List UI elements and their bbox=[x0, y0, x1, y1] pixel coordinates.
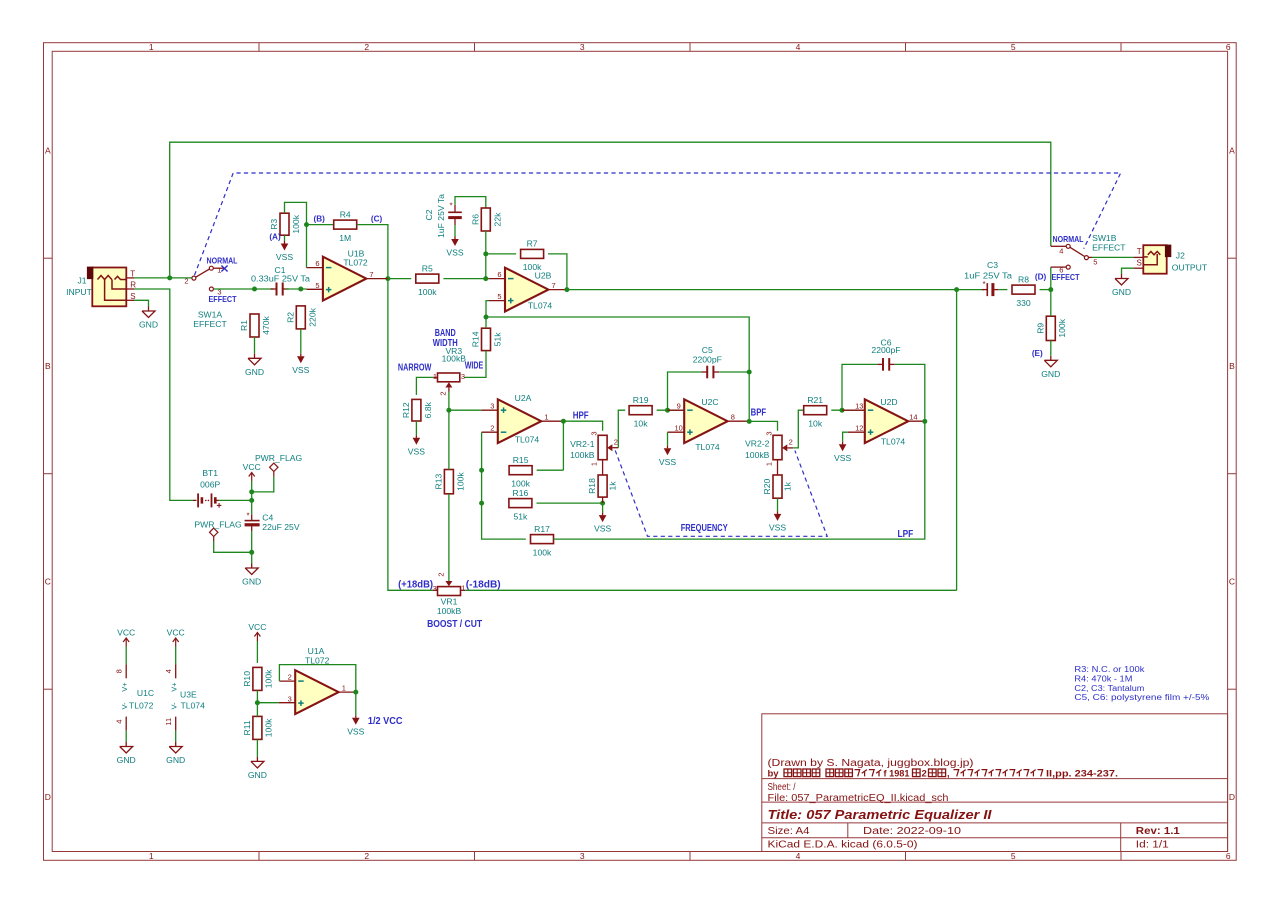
svg-text:22uF 25V: 22uF 25V bbox=[262, 522, 300, 532]
svg-text:11: 11 bbox=[164, 718, 173, 726]
svg-text:R21: R21 bbox=[807, 395, 823, 405]
potentiometer VR2-2 100kB bbox=[773, 435, 782, 459]
svg-text:f 1981: f 1981 bbox=[884, 768, 911, 779]
svg-text:1uF 25V Ta: 1uF 25V Ta bbox=[964, 271, 1012, 281]
svg-text:3: 3 bbox=[288, 695, 292, 704]
svg-text:T: T bbox=[130, 269, 135, 278]
VSS at U2C bbox=[667, 446, 669, 449]
svg-text:(C): (C) bbox=[371, 214, 383, 223]
ground at C4 bbox=[251, 564, 253, 569]
svg-text:T: T bbox=[1137, 247, 1142, 256]
svg-text:R2: R2 bbox=[285, 312, 295, 323]
svg-text:R4: 470k - 1M: R4: 470k - 1M bbox=[1074, 674, 1132, 683]
svg-text:6: 6 bbox=[1226, 851, 1231, 861]
svg-text:4: 4 bbox=[796, 851, 801, 861]
VCC at U3E bbox=[175, 639, 177, 647]
junction output bus bbox=[954, 287, 959, 292]
wire U2B pin5 to bandwidth net bbox=[486, 301, 489, 317]
svg-text:2: 2 bbox=[490, 424, 494, 433]
svg-text:C4: C4 bbox=[262, 512, 273, 522]
wire top loop input to SW1B bbox=[170, 142, 1051, 278]
wire J1 ring to battery bbox=[134, 289, 193, 500]
wire node to R7 bbox=[486, 253, 516, 255]
junction GND node bbox=[249, 550, 254, 555]
svg-text:R20: R20 bbox=[762, 478, 772, 494]
svg-text:470k: 470k bbox=[261, 315, 271, 334]
junction R2 top bbox=[298, 287, 303, 292]
svg-text:2: 2 bbox=[364, 851, 369, 861]
resistor R2 bbox=[296, 306, 305, 329]
svg-text:D: D bbox=[45, 792, 51, 802]
pin U2C-8 output bbox=[728, 420, 750, 422]
svg-text:TL074: TL074 bbox=[528, 301, 553, 311]
svg-text:File: 057_ParametricEQ_II.kica: File: 057_ParametricEQ_II.kicad_sch bbox=[768, 793, 949, 804]
svg-text:(D): (D) bbox=[1035, 272, 1047, 281]
VSS at R12 bbox=[415, 435, 417, 438]
svg-text:A: A bbox=[45, 146, 51, 156]
svg-text:VSS: VSS bbox=[276, 252, 293, 262]
capacitor C2 1uF 25V Ta bbox=[448, 211, 462, 213]
wire VCC column bbox=[251, 481, 253, 500]
ground at U1C bbox=[125, 742, 127, 747]
dashed FREQUENCY group bbox=[615, 450, 827, 536]
junction R6 bottom node bbox=[483, 276, 488, 281]
svg-text:1k: 1k bbox=[783, 481, 793, 491]
svg-text:5: 5 bbox=[1011, 42, 1016, 52]
PWR_FLAG at GND bbox=[213, 537, 215, 542]
resistor R15 bbox=[509, 466, 532, 475]
svg-text:1: 1 bbox=[217, 265, 221, 274]
svg-text:4: 4 bbox=[115, 720, 124, 724]
junction R1 top bbox=[252, 287, 257, 292]
pin U2A-1 output bbox=[541, 420, 563, 422]
svg-text:3: 3 bbox=[580, 42, 585, 52]
svg-text:220k: 220k bbox=[307, 307, 317, 326]
svg-text:1: 1 bbox=[149, 42, 154, 52]
svg-text:R13: R13 bbox=[433, 473, 443, 489]
svg-text:WIDE: WIDE bbox=[465, 359, 484, 371]
svg-text:Rev: 1.1: Rev: 1.1 bbox=[1136, 826, 1180, 837]
svg-text:1M: 1M bbox=[339, 233, 351, 243]
wire junction to U1A pin3 bbox=[257, 702, 278, 704]
svg-text:100k: 100k bbox=[291, 214, 301, 233]
svg-text:(-18dB): (-18dB) bbox=[466, 579, 501, 591]
VSS at R18 bbox=[602, 513, 604, 516]
svg-text:14: 14 bbox=[909, 413, 917, 422]
svg-text:1: 1 bbox=[590, 462, 599, 466]
capacitor C3 1uF 25V Ta bbox=[986, 283, 988, 296]
wire R3 to VSS bbox=[284, 235, 286, 241]
svg-text:(E): (E) bbox=[1032, 349, 1043, 358]
wire R2 to VSS bbox=[300, 329, 302, 354]
capacitor C1 bbox=[276, 283, 278, 296]
svg-text:0.33uF 25V Ta: 0.33uF 25V Ta bbox=[251, 274, 310, 284]
svg-text:VR2-2: VR2-2 bbox=[745, 439, 770, 449]
svg-text:2: 2 bbox=[364, 42, 369, 52]
junction U1A output bbox=[353, 690, 358, 695]
svg-text:2: 2 bbox=[439, 391, 448, 395]
wire U2C pin10 to VSS bbox=[667, 432, 669, 446]
svg-text:1uF 25V Ta: 1uF 25V Ta bbox=[436, 194, 446, 238]
wire SW1A-3 to C1 bbox=[214, 288, 274, 290]
svg-text:VSS: VSS bbox=[659, 457, 676, 467]
svg-text:V-: V- bbox=[170, 702, 179, 710]
wire U2A out down to R15 bbox=[562, 421, 564, 470]
svg-text:5: 5 bbox=[1093, 257, 1097, 266]
svg-text:INPUT: INPUT bbox=[66, 287, 93, 297]
svg-text:R16: R16 bbox=[513, 488, 529, 498]
VCC at U1C bbox=[125, 639, 127, 647]
pin U1B-6 bbox=[307, 267, 323, 269]
resistor R13 bbox=[444, 470, 453, 494]
resistor R6 bbox=[481, 208, 490, 231]
pin VR2-1 wiper wire to R19 bbox=[618, 410, 625, 448]
wire U1A feedback bbox=[279, 665, 355, 693]
junction R18 bottom bbox=[600, 501, 605, 506]
pin U1A-1 output bbox=[339, 691, 356, 693]
svg-text:GND: GND bbox=[117, 755, 136, 765]
wire R21 to U2D pin13 bbox=[831, 409, 865, 411]
wire output bus down to VR1 bbox=[956, 290, 958, 591]
junction U2A output bbox=[561, 419, 566, 424]
wire C6 right to U2D output bbox=[895, 364, 925, 421]
wire to PWR_FLAG 2 bbox=[214, 542, 252, 553]
pin J1-T bbox=[126, 277, 134, 279]
svg-text:V+: V+ bbox=[120, 682, 129, 692]
pin J2-S bbox=[1134, 267, 1144, 269]
svg-text:R11: R11 bbox=[242, 720, 252, 735]
svg-text:100kB: 100kB bbox=[570, 450, 595, 460]
svg-text:FREQUENCY: FREQUENCY bbox=[681, 522, 728, 534]
pin U2D-13 bbox=[842, 409, 865, 411]
wire R1 to ground bbox=[254, 337, 256, 354]
svg-text:PWR_FLAG: PWR_FLAG bbox=[255, 453, 303, 463]
VCC at R10 bbox=[256, 633, 258, 641]
wire R13 to VR1 wiper bbox=[448, 494, 450, 581]
ground at J1 bbox=[148, 307, 150, 312]
junction VCC node bbox=[249, 498, 254, 503]
svg-text:R7: R7 bbox=[527, 239, 538, 249]
dashed link SW1A to SW1B bbox=[195, 173, 1121, 275]
svg-text:R9: R9 bbox=[1035, 323, 1045, 334]
junction BPF node bbox=[747, 419, 752, 424]
svg-text:VCC: VCC bbox=[243, 462, 261, 472]
svg-text:2: 2 bbox=[614, 437, 618, 446]
wire J1 sleeve to ground bbox=[134, 300, 149, 306]
svg-text:(A): (A) bbox=[269, 233, 281, 242]
wire U2A pin2 feedback column bbox=[482, 432, 526, 539]
svg-text:6: 6 bbox=[497, 270, 501, 279]
VSS output 1/2 VCC bbox=[355, 715, 357, 718]
wire C1 to U1B pin5 bbox=[286, 288, 307, 290]
svg-text:VSS: VSS bbox=[446, 248, 463, 258]
junction U1B output bbox=[385, 276, 390, 281]
svg-text:1/2 VCC: 1/2 VCC bbox=[368, 715, 403, 727]
pin J1-S bbox=[126, 299, 134, 301]
svg-text:VSS: VSS bbox=[347, 726, 364, 736]
op-amp U2C bbox=[684, 399, 727, 443]
svg-text:100k: 100k bbox=[533, 547, 552, 557]
op-amp U1A bbox=[295, 670, 338, 714]
resistor R20 bbox=[773, 475, 782, 498]
ground at R9 bbox=[1050, 356, 1052, 361]
svg-text:R14: R14 bbox=[471, 331, 481, 347]
pin U2D-14 output bbox=[908, 420, 925, 422]
svg-text:PWR_FLAG: PWR_FLAG bbox=[194, 520, 242, 530]
pin U1A-3 bbox=[279, 702, 296, 704]
svg-text:R: R bbox=[130, 281, 136, 290]
svg-text:(+18dB): (+18dB) bbox=[398, 579, 433, 591]
svg-text:II,pp. 234-237.: II,pp. 234-237. bbox=[1046, 768, 1118, 779]
svg-text:51k: 51k bbox=[493, 332, 503, 347]
svg-text:VSS: VSS bbox=[834, 453, 851, 463]
svg-text:2200pF: 2200pF bbox=[693, 354, 722, 364]
svg-text:(B): (B) bbox=[314, 214, 326, 223]
VSS at R20 bbox=[777, 511, 779, 514]
wire VCC node to C4 bbox=[251, 500, 253, 514]
svg-text:R8: R8 bbox=[1018, 274, 1029, 284]
wire U2D pin12 to VSS bbox=[843, 432, 848, 442]
svg-text:TL074: TL074 bbox=[881, 436, 906, 446]
svg-text:*: * bbox=[982, 280, 985, 289]
svg-text:C: C bbox=[45, 577, 51, 587]
wire SW1B-5 to J2 bbox=[1092, 256, 1134, 258]
svg-text:1: 1 bbox=[764, 462, 773, 466]
junction U2D output LPF node bbox=[922, 419, 927, 424]
svg-text:3: 3 bbox=[433, 584, 437, 593]
svg-text:10k: 10k bbox=[808, 418, 823, 428]
svg-text:R3: N.C. or 100k: R3: N.C. or 100k bbox=[1074, 665, 1145, 674]
wire R10 to junction bbox=[256, 690, 258, 702]
svg-text:006P: 006P bbox=[200, 479, 220, 489]
resistor R5 bbox=[416, 274, 439, 283]
svg-text:3: 3 bbox=[461, 372, 465, 381]
wire U1B out to R5 bbox=[388, 278, 411, 280]
svg-text:NARROW: NARROW bbox=[398, 362, 432, 374]
resistor R16 bbox=[509, 499, 532, 508]
svg-text:V-: V- bbox=[120, 702, 129, 710]
junction half-VCC divider bbox=[255, 700, 260, 705]
connector J2 OUTPUT jack bbox=[1143, 245, 1166, 274]
wire C5 left to pin9 bbox=[668, 372, 702, 410]
svg-text:J1: J1 bbox=[77, 276, 86, 286]
svg-text:51k: 51k bbox=[513, 511, 528, 521]
junction node D bbox=[1048, 287, 1053, 292]
capacitor C5 2200pF bbox=[706, 366, 708, 379]
wire C5 right bbox=[719, 371, 749, 373]
svg-text:TL074: TL074 bbox=[515, 435, 540, 445]
wire J1 tip to SW1A bbox=[134, 277, 192, 279]
wire R4 to node C down to VR1 bbox=[357, 225, 434, 591]
svg-text:330: 330 bbox=[1016, 298, 1031, 308]
svg-text:R19: R19 bbox=[633, 395, 649, 405]
wire R12 to VSS bbox=[415, 421, 417, 435]
svg-text:EFFECT: EFFECT bbox=[1092, 242, 1126, 252]
svg-text:R15: R15 bbox=[513, 455, 529, 465]
svg-text:J2: J2 bbox=[1176, 250, 1185, 260]
pin U2C-10 bbox=[668, 431, 685, 433]
svg-text:1: 1 bbox=[342, 684, 346, 693]
junction R16 left bbox=[479, 501, 484, 506]
switch SW1A bbox=[192, 276, 196, 280]
svg-text:100k: 100k bbox=[264, 669, 274, 688]
svg-text:3: 3 bbox=[590, 431, 599, 435]
op-amp U2D bbox=[865, 399, 908, 443]
svg-text:Date: 2022-09-10: Date: 2022-09-10 bbox=[863, 826, 962, 837]
pin J2-T bbox=[1134, 256, 1144, 258]
svg-text:5: 5 bbox=[315, 281, 319, 290]
potentiometer VR2-1 100kB bbox=[598, 435, 607, 459]
wire R3 top to U1B pin6 bbox=[285, 202, 307, 267]
svg-text:6: 6 bbox=[1226, 42, 1231, 52]
junction VR3 wiper node bbox=[446, 408, 451, 413]
junction PWR_FLAG tap bbox=[249, 489, 254, 494]
svg-text:1k: 1k bbox=[608, 481, 618, 491]
svg-text:6.8k: 6.8k bbox=[423, 401, 433, 418]
svg-text:NORMAL: NORMAL bbox=[1053, 235, 1084, 244]
svg-text:TL072: TL072 bbox=[129, 701, 154, 711]
wire bandwidth row bbox=[486, 317, 749, 372]
wire GND node down bbox=[251, 552, 253, 563]
wire VR3 wiper to U2A pin3 bbox=[449, 392, 481, 411]
resistor R14 bbox=[482, 328, 491, 350]
svg-text:10k: 10k bbox=[634, 418, 649, 428]
svg-text:NORMAL: NORMAL bbox=[207, 257, 238, 266]
pin U2C-9 bbox=[668, 409, 685, 411]
ground at R11 bbox=[256, 757, 258, 762]
svg-text:(Drawn by S. Nagata, juggbox: (Drawn by S. Nagata, juggbox.blog.jp) bbox=[768, 758, 974, 769]
svg-text:VSS: VSS bbox=[408, 446, 425, 456]
resistor R7 bbox=[521, 249, 544, 258]
svg-text:13: 13 bbox=[855, 402, 863, 411]
pin VR3-1 bbox=[433, 376, 437, 378]
junction U2D pin13 node bbox=[840, 408, 845, 413]
svg-text:Title: 057 Parametric Equalize: Title: 057 Parametric Equalizer II bbox=[768, 807, 992, 822]
svg-text:100kB: 100kB bbox=[437, 606, 462, 616]
op-amp U2A bbox=[498, 399, 541, 443]
title block frame bbox=[762, 714, 1228, 852]
wire C3 to R8 bbox=[998, 289, 1007, 291]
svg-text:1: 1 bbox=[149, 851, 154, 861]
battery BT1 006P bbox=[193, 499, 197, 501]
svg-text:VCC: VCC bbox=[167, 628, 185, 638]
svg-text:3: 3 bbox=[490, 402, 494, 411]
svg-text:100k: 100k bbox=[264, 718, 274, 737]
svg-text:Sheet: /: Sheet: / bbox=[768, 782, 796, 793]
wire C2 top to R6 top bbox=[455, 197, 486, 208]
junction bandwidth node bbox=[484, 315, 489, 320]
svg-text:S: S bbox=[1137, 259, 1142, 268]
junction U2C pin9 node bbox=[665, 408, 670, 413]
no-connect X mark bbox=[221, 266, 227, 272]
svg-text:B: B bbox=[1229, 361, 1235, 371]
wire to PWR_FLAG 1 bbox=[252, 477, 274, 492]
wire R6 to R7 node bbox=[485, 231, 487, 279]
potentiometer VR3 100kB bandwidth bbox=[438, 373, 460, 382]
svg-text:BOOST / CUT: BOOST / CUT bbox=[427, 618, 482, 630]
svg-text:9: 9 bbox=[677, 402, 681, 411]
svg-text:100k: 100k bbox=[511, 478, 530, 488]
wire R19 to U2C pin9 bbox=[657, 409, 685, 411]
svg-text:R12: R12 bbox=[401, 402, 411, 418]
svg-text:100k: 100k bbox=[1057, 318, 1067, 337]
svg-text:5: 5 bbox=[497, 292, 501, 301]
wire R17 to U2D output (LPF) bbox=[554, 421, 925, 539]
svg-text:GND: GND bbox=[242, 577, 261, 587]
svg-text:2: 2 bbox=[922, 768, 927, 779]
pin U2A-2 bbox=[482, 431, 498, 433]
svg-text:EFFECT: EFFECT bbox=[209, 295, 237, 304]
svg-text:2: 2 bbox=[436, 572, 445, 576]
junction U2B output bbox=[564, 287, 569, 292]
wire R7 to U2B output bbox=[548, 254, 567, 290]
svg-text:R10: R10 bbox=[242, 671, 252, 687]
svg-text:8: 8 bbox=[115, 669, 124, 673]
svg-text:2200pF: 2200pF bbox=[871, 345, 900, 355]
svg-text:LPF: LPF bbox=[898, 528, 914, 540]
svg-text:U2A: U2A bbox=[515, 393, 532, 403]
svg-text:R3: R3 bbox=[269, 219, 279, 230]
switch SW1B bbox=[1051, 266, 1066, 268]
resistor R21 bbox=[804, 406, 827, 415]
svg-text:U2B: U2B bbox=[535, 271, 552, 281]
svg-text:TL072: TL072 bbox=[343, 258, 368, 268]
pin VR1-1 bbox=[461, 589, 466, 591]
wire U1A out to VSS bbox=[355, 692, 357, 715]
svg-text:C5, C6: polystyrene film +/-5%: C5, C6: polystyrene film +/-5% bbox=[1074, 693, 1209, 702]
svg-text:HPF: HPF bbox=[573, 409, 589, 421]
svg-text:2: 2 bbox=[789, 438, 793, 447]
svg-text:GND: GND bbox=[166, 755, 185, 765]
capacitor C6 2200pF bbox=[882, 358, 884, 371]
svg-text:VCC: VCC bbox=[117, 628, 135, 638]
resistor R19 bbox=[629, 406, 652, 415]
svg-text:7: 7 bbox=[552, 281, 556, 290]
wire R13 top bbox=[448, 410, 450, 469]
resistor R10 bbox=[253, 667, 262, 690]
wire R9 to ground bbox=[1050, 341, 1052, 356]
svg-text:1: 1 bbox=[544, 413, 548, 422]
wire J2 sleeve to ground bbox=[1122, 268, 1134, 274]
svg-text:4: 4 bbox=[1059, 246, 1063, 255]
svg-text:Size: A4: Size: A4 bbox=[768, 826, 810, 837]
potentiometer VR1 100kB boost/cut bbox=[438, 587, 461, 596]
svg-text:EFFECT: EFFECT bbox=[193, 319, 227, 329]
svg-text:1: 1 bbox=[433, 372, 437, 381]
svg-text:3: 3 bbox=[580, 851, 585, 861]
svg-text:5: 5 bbox=[1011, 851, 1016, 861]
svg-text:Id: 1/1: Id: 1/1 bbox=[1136, 839, 1170, 850]
svg-text:2: 2 bbox=[184, 276, 188, 285]
svg-text:TL074: TL074 bbox=[181, 701, 206, 711]
svg-text:BT1: BT1 bbox=[202, 468, 218, 478]
PWR_FLAG at VCC bbox=[273, 472, 275, 477]
junction R7 left node bbox=[483, 251, 488, 256]
svg-text:,: , bbox=[947, 768, 950, 779]
svg-text:6: 6 bbox=[315, 259, 319, 268]
svg-text:V+: V+ bbox=[170, 682, 179, 692]
resistor R9 bbox=[1046, 316, 1055, 340]
svg-text:GND: GND bbox=[1041, 369, 1060, 379]
svg-text:U2D: U2D bbox=[880, 397, 897, 407]
wire C5 node to BPF bbox=[748, 372, 750, 421]
svg-text:U1C: U1C bbox=[137, 688, 154, 698]
svg-text:C3: C3 bbox=[987, 260, 998, 270]
junction R15 left bbox=[479, 468, 484, 473]
junction input node bbox=[167, 275, 172, 280]
connector J1 INPUT jack bbox=[92, 268, 126, 307]
resistor R4 bbox=[334, 220, 357, 229]
